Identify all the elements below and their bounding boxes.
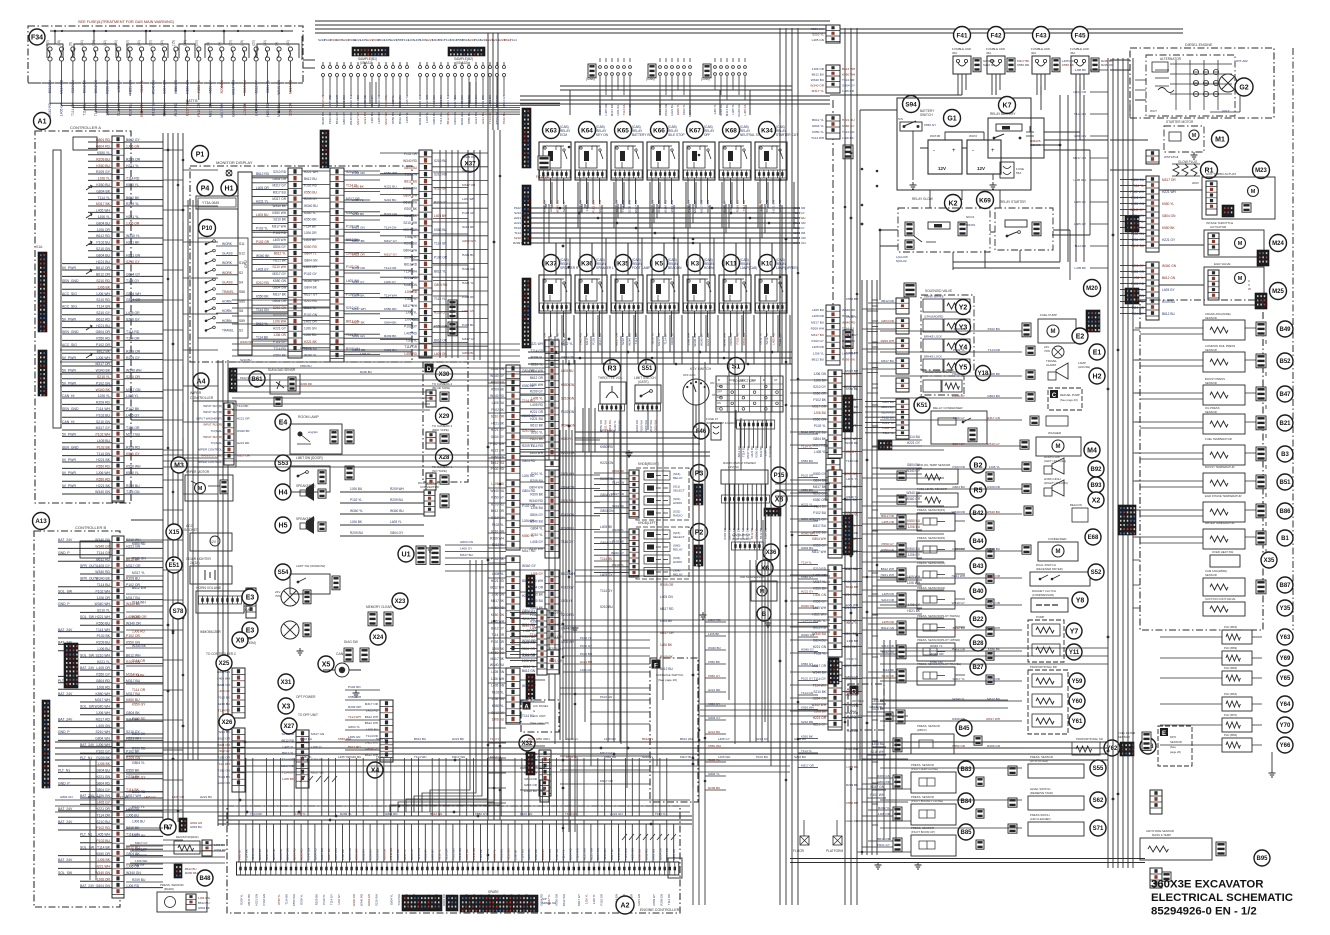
svg-text:K550 YL: K550 YL <box>126 183 139 187</box>
svg-text:(HBCV): (HBCV) <box>917 728 927 732</box>
svg-text:RESISTOR(MAF): RESISTOR(MAF) <box>176 835 199 839</box>
svg-text:R209 WH: R209 WH <box>348 705 361 709</box>
svg-text:5V_PWR: 5V_PWR <box>62 381 76 385</box>
battery switch symbol <box>900 122 922 131</box>
svg-text:X1A: X1A <box>36 245 43 249</box>
svg-text:H221 YL: H221 YL <box>126 215 139 219</box>
svg-text:T114 YL: T114 YL <box>801 445 812 449</box>
svg-text:1J06 OR: 1J06 OR <box>812 67 825 71</box>
svg-text:G804 GY: G804 GY <box>952 442 965 446</box>
svg-text:L405 WH: L405 WH <box>334 848 338 860</box>
center vertical risers 2 <box>583 408 595 452</box>
svg-text:G804 GN: G804 GN <box>813 697 827 701</box>
svg-text:B: B <box>718 378 720 382</box>
svg-text:G804 GN: G804 GN <box>845 675 858 679</box>
svg-text:SOL_SW: SOL_SW <box>58 871 73 875</box>
svg-text:R209 OR: R209 OR <box>987 574 1001 578</box>
svg-text:INPUT RLY(R): INPUT RLY(R) <box>203 435 222 439</box>
fuse F46 <box>693 423 709 439</box>
svg-text:B22: B22 <box>972 617 984 623</box>
svg-text:R209 GN: R209 GN <box>877 774 890 778</box>
svg-text:BAT_24V: BAT_24V <box>58 628 73 632</box>
svg-text:B612 BU: B612 BU <box>398 112 402 124</box>
right-mid long bus <box>790 859 1145 863</box>
svg-text:F(CAB): F(CAB) <box>536 175 547 179</box>
solenoid Y3 <box>896 318 909 334</box>
svg-text:P102 BK: P102 BK <box>218 696 231 700</box>
fuses F34-1..22 with rating labels <box>48 47 52 51</box>
svg-text:1J06 YL: 1J06 YL <box>98 215 110 219</box>
ground symbols misc <box>297 648 304 655</box>
svg-text:G804 GN: G804 GN <box>367 894 371 906</box>
svg-text:K550 WH: K550 WH <box>95 692 110 696</box>
svg-text:(GATE): (GATE) <box>638 380 649 384</box>
svg-text:X15: X15 <box>169 530 180 536</box>
svg-text:RELAY STARTER: RELAY STARTER <box>1000 200 1026 204</box>
svg-text:PLT_N1: PLT_N1 <box>80 833 92 837</box>
svg-text:K65: K65 <box>617 127 629 134</box>
svg-text:G804 RD: G804 RD <box>313 848 317 860</box>
svg-text:L405 OR: L405 OR <box>126 311 140 315</box>
svg-text:H221 OR: H221 OR <box>217 683 231 687</box>
svg-text:1J06 BK: 1J06 BK <box>814 379 827 383</box>
svg-text:G804 BU: G804 BU <box>96 769 110 773</box>
svg-text:S210 BU: S210 BU <box>600 605 613 609</box>
svg-text:L405 YL: L405 YL <box>390 520 402 524</box>
svg-text:G804 OR: G804 OR <box>635 420 639 432</box>
svg-text:P102 BU: P102 BU <box>756 755 768 759</box>
svg-text:PRESS. SENSOR(PILOT SWING): PRESS. SENSOR(PILOT SWING) <box>917 614 960 618</box>
svg-text:1J06 BU: 1J06 BU <box>908 525 921 529</box>
svg-text:R209 YL: R209 YL <box>708 758 720 762</box>
svg-text:(BARO): (BARO) <box>164 887 174 891</box>
svg-text:G804 BU: G804 BU <box>96 253 110 257</box>
svg-text:NKO4: NKO4 <box>966 215 975 219</box>
svg-text:S210 YL: S210 YL <box>97 375 110 379</box>
svg-text:P102 GN: P102 GN <box>96 381 110 385</box>
svg-text:SOLENOID VALVE: SOLENOID VALVE <box>925 370 952 374</box>
svg-text:GND_P: GND_P <box>58 602 70 606</box>
svg-text:T114: T114 <box>510 38 517 42</box>
svg-text:BAT_24V: BAT_24V <box>58 717 73 721</box>
svg-text:S210 BU: S210 BU <box>71 79 75 93</box>
svg-text:B612 BK: B612 BK <box>83 79 87 93</box>
svg-text:W340 RD: W340 RD <box>529 499 544 503</box>
svg-text:K550 BU: K550 BU <box>375 849 379 860</box>
svg-text:H221 BU: H221 BU <box>384 185 397 189</box>
svg-text:5V_PWR: 5V_PWR <box>62 369 76 373</box>
top fuse/pin group 2 <box>419 66 422 69</box>
svg-text:M317 OR: M317 OR <box>126 564 141 568</box>
svg-text:T114 GN: T114 GN <box>846 459 858 463</box>
svg-text:W340 BK: W340 BK <box>467 95 471 108</box>
svg-text:M317 WH: M317 WH <box>649 420 653 432</box>
controller B connector strip <box>112 536 124 898</box>
svg-text:P102 YL: P102 YL <box>580 636 592 640</box>
svg-text:M317 BK: M317 BK <box>491 599 505 603</box>
svg-text:S210 BU: S210 BU <box>96 820 110 824</box>
svg-text:S210 OR: S210 OR <box>881 598 894 602</box>
svg-text:H221 GY: H221 GY <box>801 590 813 594</box>
svg-text:R209 BK: R209 BK <box>314 894 318 905</box>
connector X4 strip <box>380 700 393 762</box>
svg-text:H221 GN: H221 GN <box>96 775 111 779</box>
battery area wires <box>830 86 1080 300</box>
svg-text:S210 OR: S210 OR <box>444 848 448 860</box>
svg-text:G804 BK: G804 BK <box>198 906 210 910</box>
svg-text:L405 OR: L405 OR <box>604 104 608 116</box>
svg-text:ACC_SIG: ACC_SIG <box>62 343 77 347</box>
svg-text:K550 BK: K550 BK <box>1162 226 1175 230</box>
connector X32 <box>519 735 535 751</box>
svg-text:M317 BK: M317 BK <box>247 894 251 906</box>
svg-text:W340 RD: W340 RD <box>617 848 621 860</box>
svg-text:M317 RD: M317 RD <box>660 607 674 611</box>
svg-text:T114 BK: T114 BK <box>479 849 483 860</box>
center connector strips column 2 <box>545 340 559 460</box>
svg-text:P102 BK: P102 BK <box>591 333 595 345</box>
svg-text:WIPER CONTROL: WIPER CONTROL <box>198 447 223 451</box>
svg-text:1J06 BU: 1J06 BU <box>97 647 111 651</box>
svg-text:K550 YL: K550 YL <box>522 534 534 538</box>
svg-text:M317 GN: M317 GN <box>987 416 1000 420</box>
svg-text:S210 GY: S210 GY <box>96 311 110 315</box>
svg-text:P102 OR: P102 OR <box>352 171 365 175</box>
svg-text:B612 BU: B612 BU <box>198 901 210 905</box>
svg-text:B44: B44 <box>972 539 984 545</box>
svg-text:S210 BU: S210 BU <box>240 358 252 362</box>
svg-text:5V_PWR: 5V_PWR <box>62 266 76 270</box>
relay battery K7 <box>999 97 1016 114</box>
svg-text:T114 GY: T114 GY <box>793 211 805 215</box>
svg-text:RELAY CONDENSER: RELAY CONDENSER <box>933 406 963 410</box>
aux pin combs under key switch <box>737 420 775 429</box>
svg-text:G804 GY: G804 GY <box>126 273 141 277</box>
svg-text:L405 GY: L405 GY <box>126 413 140 417</box>
svg-text:P102 OR: P102 OR <box>664 104 668 116</box>
svg-text:M317 OR: M317 OR <box>812 405 826 409</box>
A2 slanted jumper marks <box>300 776 676 840</box>
svg-text:T114 BK: T114 BK <box>742 200 746 211</box>
svg-text:X27: X27 <box>284 724 295 730</box>
svg-text:SOL_SW: SOL_SW <box>80 615 95 619</box>
svg-text:P102 BK: P102 BK <box>97 634 111 638</box>
monitor east gutter bends <box>433 172 468 353</box>
svg-text:WKOS: WKOS <box>966 223 975 227</box>
svg-text:H221 GY: H221 GY <box>491 428 505 432</box>
svg-text:H221 BK: H221 BK <box>363 112 367 124</box>
svg-text:R209 GY: R209 GY <box>96 170 111 174</box>
svg-text:(20): (20) <box>252 40 256 46</box>
svg-text:1J06 YL: 1J06 YL <box>584 894 588 905</box>
option line box B <box>848 684 884 730</box>
controller A pin labels and stub wires <box>62 142 163 494</box>
svg-text:SENSOR: SENSOR <box>1205 381 1217 385</box>
svg-text:P102 RD: P102 RD <box>491 467 505 471</box>
svg-text:W340 OR: W340 OR <box>132 615 147 619</box>
svg-text:L405 YL: L405 YL <box>523 629 535 633</box>
svg-text:P15: P15 <box>774 473 785 479</box>
svg-text:W: W <box>1248 287 1251 291</box>
svg-text:BAT_24V: BAT_24V <box>80 743 95 747</box>
svg-text:SEN_GND: SEN_GND <box>62 407 79 411</box>
svg-text:P102 RD: P102 RD <box>348 685 361 689</box>
svg-text:A1: A1 <box>38 119 47 126</box>
svg-text:1J06 BK: 1J06 BK <box>660 643 673 647</box>
svg-text:R209 YL: R209 YL <box>239 894 243 905</box>
svg-text:STARTER CUT: STARTER CUT <box>776 133 798 137</box>
svg-text:Y2: Y2 <box>959 305 968 312</box>
svg-text:K550 WH: K550 WH <box>708 744 721 748</box>
svg-text:M317 BK: M317 BK <box>813 485 827 489</box>
svg-text:W340 BU: W340 BU <box>490 663 505 667</box>
svg-text:P102 WH: P102 WH <box>490 442 504 446</box>
svg-text:R209 YL: R209 YL <box>522 444 535 448</box>
svg-text:M317 WH: M317 WH <box>352 307 366 311</box>
svg-text:1J06 YL: 1J06 YL <box>592 894 596 905</box>
engine harness ladder strip <box>1146 150 1159 164</box>
svg-text:FUEL PUMP: FUEL PUMP <box>1040 313 1057 317</box>
svg-text:1J06 WH: 1J06 WH <box>96 471 110 475</box>
svg-text:W340 OR: W340 OR <box>389 848 393 860</box>
svg-text:H221 GN: H221 GN <box>462 267 475 271</box>
svg-text:Y66: Y66 <box>1280 743 1291 749</box>
svg-text:K2: K2 <box>949 201 958 208</box>
svg-text:B612 WH: B612 WH <box>562 894 566 906</box>
svg-text:K10: K10 <box>761 260 773 267</box>
svg-text:B85: B85 <box>960 830 972 836</box>
svg-text:M317 YL: M317 YL <box>812 89 825 93</box>
svg-text:G804 RD: G804 RD <box>881 319 895 323</box>
svg-text:5V_PWR: 5V_PWR <box>62 458 76 462</box>
camera connector X30 <box>436 366 453 383</box>
svg-text:M317 WH: M317 WH <box>452 755 465 759</box>
svg-text:1J06 RD: 1J06 RD <box>555 849 559 860</box>
header connector J1 <box>352 47 389 56</box>
relay K5 <box>651 255 668 272</box>
svg-text:G804 RD: G804 RD <box>96 145 111 149</box>
svg-text:P102 BU: P102 BU <box>300 737 312 741</box>
svg-text:M: M <box>1051 329 1056 335</box>
more left gutter bends <box>183 150 218 494</box>
svg-text:M317 RD: M317 RD <box>610 104 614 116</box>
svg-text:THROTTLE VOL.: THROTTLE VOL. <box>598 376 623 380</box>
svg-text:L405 GY: L405 GY <box>431 849 435 860</box>
svg-text:HORN: HORN <box>704 266 714 270</box>
svg-text:R209 BK: R209 BK <box>96 756 110 760</box>
svg-text:P102 GN: P102 GN <box>600 695 612 699</box>
svg-text:(05,A31): (05,A31) <box>360 61 372 65</box>
acc socket X15 <box>166 524 182 540</box>
svg-text:S210 YL: S210 YL <box>391 95 395 107</box>
wiper controller block <box>193 401 236 467</box>
console wires <box>560 700 650 784</box>
svg-text:R209 GN: R209 GN <box>140 102 144 116</box>
svg-text:P102 BU: P102 BU <box>96 241 110 245</box>
svg-text:R209 BK: R209 BK <box>491 387 505 391</box>
svg-text:T114 WH: T114 WH <box>384 293 397 297</box>
svg-text:BAT_24V: BAT_24V <box>80 884 95 888</box>
camera connector X28 <box>436 449 453 466</box>
svg-text:T114 WH: T114 WH <box>397 894 401 906</box>
svg-text:(20): (20) <box>149 40 153 46</box>
throttle volume R3 <box>604 360 621 377</box>
svg-text:W340 GN: W340 GN <box>277 79 281 94</box>
svg-text:IDLE STOP: IDLE STOP <box>668 133 685 137</box>
svg-text:SPR_OUT1: SPR_OUT1 <box>80 577 98 581</box>
svg-text:R209 OR: R209 OR <box>660 583 674 587</box>
B45 aux conn cluster <box>884 712 893 721</box>
svg-text:K550 GY: K550 GY <box>881 542 894 546</box>
svg-text:G804 YL: G804 YL <box>389 894 393 905</box>
svg-text:P102 GN: P102 GN <box>217 768 230 772</box>
svg-text:1J06 GY: 1J06 GY <box>953 416 965 420</box>
fuse F41 <box>954 27 971 44</box>
indicator P4 <box>197 180 213 196</box>
svg-text:H221 OR: H221 OR <box>237 416 250 420</box>
engine controller label A2 <box>616 896 634 914</box>
relay K37 <box>543 255 560 272</box>
svg-text:PRESS. SENSOR(P2): PRESS. SENSOR(P2) <box>917 536 945 540</box>
svg-text:&: & <box>533 709 535 713</box>
right-mid verticals <box>884 640 896 840</box>
svg-text:W340 BU: W340 BU <box>390 509 404 513</box>
svg-text:FOOT LAMP: FOOT LAMP <box>632 266 650 270</box>
svg-text:R209 OR: R209 OR <box>88 795 101 799</box>
refuel pump C <box>1048 388 1082 410</box>
svg-text:(See: (See <box>1170 745 1176 749</box>
svg-text:G804 BK: G804 BK <box>352 293 365 297</box>
svg-text:G804 GY: G804 GY <box>96 788 111 792</box>
svg-text:B612 OR: B612 OR <box>352 253 365 257</box>
small strip below console <box>540 780 549 802</box>
svg-text:B612 RD: B612 RD <box>96 557 110 561</box>
svg-text:P102 OR: P102 OR <box>599 894 603 906</box>
svg-text:K550 YL: K550 YL <box>847 315 859 319</box>
svg-text:ENGINE CONTROLLER: ENGINE CONTROLLER <box>640 908 680 912</box>
svg-text:W340 GY: W340 GY <box>952 601 965 605</box>
svg-text:K550 RD: K550 RD <box>304 245 318 249</box>
spine connector blocks top <box>826 25 840 43</box>
svg-text:T114 GN: T114 GN <box>126 490 140 494</box>
svg-text:M317 GY: M317 GY <box>273 184 287 188</box>
svg-text:(15): (15) <box>171 40 175 46</box>
svg-text:M317 BK: M317 BK <box>352 321 366 325</box>
svg-text:HORN: HORN <box>673 560 682 564</box>
svg-text:G804 RD: G804 RD <box>522 459 536 463</box>
svg-text:R209 WH: R209 WH <box>640 420 644 432</box>
svg-text:W340 GN: W340 GN <box>1162 264 1177 268</box>
svg-text:F42: F42 <box>990 32 1001 39</box>
svg-text:INPUT RLY(R): INPUT RLY(R) <box>203 423 222 427</box>
svg-text:A13: A13 <box>35 518 47 525</box>
svg-text:B612 RD: B612 RD <box>404 262 418 266</box>
svg-text:B612 BU: B612 BU <box>812 73 824 77</box>
svg-text:H221 BU: H221 BU <box>670 104 674 116</box>
svg-text:PLATFORM: PLATFORM <box>826 849 843 853</box>
svg-text:G804 WH: G804 WH <box>812 537 827 541</box>
svg-text:M317 RD: M317 RD <box>611 492 625 496</box>
battery group box <box>897 98 1031 190</box>
svg-text:L405 YL: L405 YL <box>405 112 409 123</box>
svg-text:R209 YL: R209 YL <box>299 894 303 905</box>
svg-text:(CAB): (CAB) <box>586 77 595 81</box>
svg-text:1J06 RD: 1J06 RD <box>522 474 535 478</box>
svg-text:ALARM: ALARM <box>1046 363 1057 367</box>
svg-text:G804 OR: G804 OR <box>522 641 536 645</box>
svg-text:K550 YL: K550 YL <box>1162 202 1174 206</box>
svg-text:S210 GY: S210 GY <box>813 723 827 727</box>
svg-text:GND_P: GND_P <box>58 730 70 734</box>
svg-text:Y8: Y8 <box>1076 598 1085 605</box>
svg-text:W340 RD: W340 RD <box>363 94 367 108</box>
svg-text:H221 WH: H221 WH <box>604 420 608 432</box>
svg-text:P102 YL: P102 YL <box>814 652 826 656</box>
svg-text:RAIN/WS CTRL: RAIN/WS CTRL <box>201 454 222 458</box>
svg-text:M317 RD: M317 RD <box>634 199 638 213</box>
svg-text:(30): (30) <box>160 40 164 46</box>
svg-text:S210 YL: S210 YL <box>140 80 144 93</box>
svg-text:CAN: CAN <box>336 652 344 656</box>
svg-text:W340 WH: W340 WH <box>95 602 111 606</box>
U1 unit <box>398 546 414 562</box>
svg-text:BATT B: BATT B <box>186 99 198 103</box>
svg-text:P102 BU: P102 BU <box>500 849 504 860</box>
svg-text:S210 BK: S210 BK <box>352 212 365 216</box>
svg-text:G804 GN: G804 GN <box>217 670 230 674</box>
svg-text:1J06 YL: 1J06 YL <box>813 351 825 355</box>
svg-text:K550 BK: K550 BK <box>801 735 813 739</box>
svg-text:H221 GN: H221 GN <box>254 894 258 906</box>
svg-text:M317 BU: M317 BU <box>811 333 824 337</box>
fuse F45 <box>1072 27 1089 44</box>
svg-text:DPO: DPO <box>1170 735 1177 739</box>
svg-text:R209 YL: R209 YL <box>340 812 352 816</box>
svg-text:KHDB(RIGHT): KHDB(RIGHT) <box>638 462 659 466</box>
svg-text:S210 OR: S210 OR <box>793 231 806 235</box>
svg-text:M25: M25 <box>1272 289 1284 295</box>
svg-text:CONSOLE SWITCH: CONSOLE SWITCH <box>656 673 683 677</box>
svg-text:(5): (5) <box>275 42 279 46</box>
svg-text:L405 BK: L405 BK <box>282 777 295 781</box>
svg-text:H221 YL: H221 YL <box>97 660 110 664</box>
svg-text:30A: 30A <box>1031 51 1036 55</box>
vertical risers middle <box>608 430 620 742</box>
svg-text:B612 YL: B612 YL <box>642 737 654 741</box>
svg-text:M317 RD: M317 RD <box>813 444 827 448</box>
svg-text:S210 BU: S210 BU <box>794 755 806 759</box>
svg-text:L405 BK: L405 BK <box>396 849 400 860</box>
svg-text:M317 BU: M317 BU <box>460 553 473 557</box>
svg-text:WORK: WORK <box>222 242 233 246</box>
svg-text:(NO TAPE): (NO TAPE) <box>432 469 447 473</box>
svg-text:M317 OR: M317 OR <box>95 362 110 366</box>
svg-text:1J06 WH: 1J06 WH <box>907 581 921 585</box>
svg-text:K550 RD: K550 RD <box>600 445 614 449</box>
svg-text:S210 GN: S210 GN <box>522 623 536 627</box>
fuse drops to bus <box>962 74 1080 95</box>
svg-text:T114 GN: T114 GN <box>488 112 492 124</box>
svg-text:H221 BU: H221 BU <box>384 348 397 352</box>
svg-text:H221 BK: H221 BK <box>474 112 478 124</box>
room lamp E4 <box>275 414 291 430</box>
svg-text:(RESERVE TANK): (RESERVE TANK) <box>1030 791 1053 795</box>
svg-text:K550 GY: K550 GY <box>813 472 827 476</box>
svg-text:M317 BU: M317 BU <box>725 104 729 116</box>
svg-text:L405 GY: L405 GY <box>254 102 258 116</box>
svg-text:G804 GN: G804 GN <box>286 848 290 860</box>
svg-text:P102 RD: P102 RD <box>328 111 332 124</box>
